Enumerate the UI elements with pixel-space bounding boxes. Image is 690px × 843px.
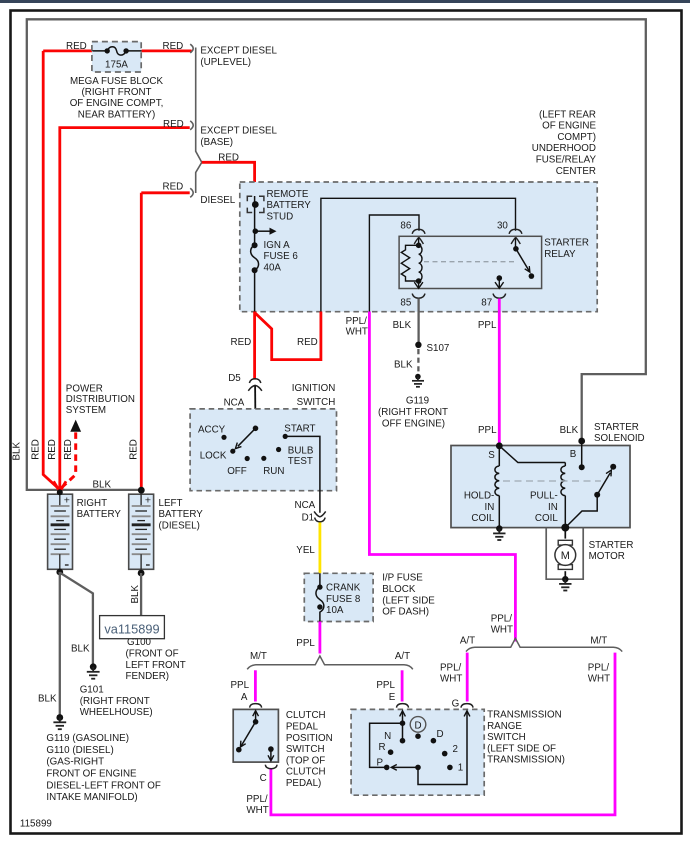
option split brace M/T-A/T (PPL)	[247, 656, 413, 669]
contact D (below indicator)	[415, 733, 421, 739]
svg-text:YEL: YEL	[296, 545, 315, 556]
svg-text:B: B	[570, 449, 577, 460]
svg-text:PPL/: PPL/	[440, 662, 462, 673]
svg-text:RED: RED	[163, 41, 184, 52]
red arrowhead into right battery	[54, 481, 66, 491]
contact BULB TEST	[276, 447, 281, 452]
svg-text:DISTRIBUTION: DISTRIBUTION	[66, 394, 135, 405]
svg-text:RIGHT: RIGHT	[77, 498, 107, 509]
contact OFF	[245, 456, 250, 461]
relay coil with parallel resistor	[401, 237, 423, 288]
internal wire to G output	[418, 711, 467, 784]
svg-text:D: D	[437, 729, 444, 740]
svg-text:SYSTEM: SYSTEM	[66, 405, 106, 416]
node + feed arrow to other circuits	[253, 228, 277, 235]
contact R	[388, 749, 394, 755]
merge brace (three feeds)	[190, 44, 202, 197]
svg-text:SOLENOID: SOLENOID	[594, 433, 645, 444]
svg-text:RED: RED	[63, 439, 74, 460]
mega fuse block box	[92, 42, 141, 72]
internal wire to P contact	[370, 723, 403, 767]
svg-text:CENTER: CENTER	[556, 166, 596, 177]
svg-text:G119 (GASOLINE): G119 (GASOLINE)	[46, 733, 129, 744]
underhood center caption	[532, 109, 597, 177]
pin 87 connector	[493, 294, 506, 299]
svg-text:BLK: BLK	[560, 425, 579, 436]
fuse 175A element	[92, 47, 141, 55]
svg-text:175A: 175A	[105, 60, 128, 71]
svg-text:40A: 40A	[264, 263, 282, 274]
svg-text:1: 1	[458, 763, 463, 774]
svg-text:G110 (DIESEL): G110 (DIESEL)	[46, 745, 113, 756]
wire RED uplevel feed (mega fuse to battery)	[43, 51, 191, 489]
ignition switch rotor arm	[235, 426, 258, 449]
svg-text:FUSE 6: FUSE 6	[264, 251, 299, 262]
svg-text:STUD: STUD	[267, 212, 294, 223]
pin 85 connector	[412, 294, 425, 299]
svg-text:S107: S107	[427, 343, 450, 354]
svg-text:(GAS-RIGHT: (GAS-RIGHT	[46, 757, 104, 768]
svg-text:CRANK: CRANK	[326, 583, 361, 594]
connector G	[461, 704, 473, 708]
svg-text:RED: RED	[231, 337, 252, 348]
svg-text:PPL: PPL	[376, 680, 395, 691]
svg-text:SWITCH: SWITCH	[487, 732, 526, 743]
svg-text:I/P FUSE: I/P FUSE	[382, 573, 423, 584]
svg-text:BULB: BULB	[288, 445, 314, 456]
internal wire to relay pin 30	[321, 198, 516, 311]
svg-text:UNDERHOOD: UNDERHOOD	[532, 143, 596, 154]
svg-text:BLK: BLK	[12, 442, 23, 461]
pin 86 connector	[412, 229, 425, 234]
svg-text:RED: RED	[297, 337, 318, 348]
svg-text:IGNITION: IGNITION	[292, 383, 336, 394]
svg-text:STARTER: STARTER	[544, 238, 589, 249]
starter relay box	[399, 236, 541, 288]
top slate bar	[0, 0, 690, 3]
svg-text:COIL: COIL	[471, 513, 494, 524]
svg-text:COMPT): COMPT)	[557, 132, 596, 143]
svg-text:+: +	[64, 495, 70, 507]
connector C	[265, 765, 277, 769]
svg-text:COIL: COIL	[535, 513, 558, 524]
power distribution dashed red arrow	[62, 431, 76, 488]
svg-text:IN: IN	[484, 502, 494, 513]
svg-text:RED: RED	[31, 439, 42, 460]
terminal S	[496, 442, 503, 449]
svg-text:MOTOR: MOTOR	[589, 551, 625, 562]
contact P with selector arrow	[384, 765, 421, 771]
svg-text:87: 87	[481, 297, 492, 308]
svg-text:POWER: POWER	[66, 383, 103, 394]
svg-text:OFF ENGINE): OFF ENGINE)	[382, 418, 445, 429]
B internal stub	[579, 441, 585, 470]
transmission range switch box	[351, 709, 484, 795]
svg-text:RUN: RUN	[263, 466, 284, 477]
svg-text:STARTER: STARTER	[589, 540, 634, 551]
wire PPL/WHT (crank signal into center)	[369, 312, 515, 642]
relay internal dashed link	[424, 261, 514, 263]
svg-text:(LEFT REAR: (LEFT REAR	[539, 109, 596, 120]
svg-text:2: 2	[453, 744, 458, 755]
svg-text:PPL: PPL	[478, 425, 497, 436]
svg-text:S: S	[488, 450, 495, 461]
svg-text:PEDAL: PEDAL	[286, 722, 319, 733]
svg-text:HOLD-: HOLD-	[464, 491, 494, 502]
svg-text:NCA: NCA	[295, 500, 316, 511]
wire START output	[285, 436, 320, 512]
svg-text:ACCY: ACCY	[198, 425, 226, 436]
svg-text:G: G	[452, 698, 460, 709]
svg-text:TRANSMISSION): TRANSMISSION)	[487, 755, 565, 766]
wire BLK right battery to G101	[60, 572, 93, 664]
svg-text:STARTER: STARTER	[594, 422, 639, 433]
node S107	[415, 342, 421, 348]
contact N	[400, 738, 406, 744]
svg-text:(RIGHT FRONT: (RIGHT FRONT	[80, 696, 150, 707]
trans switch G output arrow	[464, 711, 470, 717]
starter motor	[555, 540, 576, 569]
svg-text:DIESEL: DIESEL	[200, 195, 235, 206]
svg-text:RED: RED	[66, 41, 87, 52]
svg-text:86: 86	[400, 221, 411, 232]
svg-text:OFF: OFF	[227, 466, 247, 477]
connector E	[397, 704, 409, 708]
svg-text:RANGE: RANGE	[487, 721, 522, 732]
svg-text:P: P	[376, 758, 383, 769]
svg-text:BLK: BLK	[394, 359, 413, 370]
svg-text:WHT: WHT	[246, 805, 268, 816]
svg-text:M/T: M/T	[250, 651, 267, 662]
svg-text:PPL/: PPL/	[588, 662, 610, 673]
svg-text:BATTERY: BATTERY	[267, 200, 312, 211]
trans switch E input arrow	[400, 711, 406, 741]
svg-text:EXCEPT DIESEL: EXCEPT DIESEL	[200, 46, 277, 57]
connector A	[250, 704, 262, 708]
svg-text:LEFT: LEFT	[159, 498, 183, 509]
svg-text:(BASE): (BASE)	[200, 137, 233, 148]
svg-text:FUSE/RELAY: FUSE/RELAY	[536, 155, 597, 166]
contact LOCK	[230, 449, 235, 454]
node left battery -	[138, 570, 145, 577]
svg-text:E: E	[389, 692, 396, 703]
hold-in coil ground	[493, 525, 505, 540]
svg-text:C: C	[260, 773, 267, 784]
svg-text:RED: RED	[129, 439, 140, 460]
wire BLK dashed S107 to G119	[417, 349, 419, 373]
svg-text:DIESEL-LEFT FRONT OF: DIESEL-LEFT FRONT OF	[46, 780, 161, 791]
wire RED base feed	[60, 128, 190, 490]
svg-text:PPL/: PPL/	[346, 316, 368, 327]
option split brace A/T-M/T (PPL/WHT return)	[466, 638, 622, 651]
svg-text:RED: RED	[163, 119, 184, 130]
svg-text:(RIGHT FRONT: (RIGHT FRONT	[378, 407, 448, 418]
svg-text:BATTERY: BATTERY	[77, 509, 122, 520]
svg-text:G101: G101	[80, 685, 104, 696]
circled D indicator	[410, 717, 426, 733]
clutch switch input arrow	[253, 711, 259, 725]
contact RUN	[261, 456, 266, 461]
contact ACCY	[221, 435, 226, 440]
wire RED diesel feed	[141, 193, 189, 490]
svg-text:(FRONT OF: (FRONT OF	[126, 649, 179, 660]
svg-text:SWITCH: SWITCH	[286, 744, 325, 755]
contact START	[283, 434, 288, 439]
solenoid internal dashed link	[503, 480, 601, 482]
contact 2	[442, 751, 448, 757]
svg-text:A/T: A/T	[395, 651, 410, 662]
hold-in coil	[495, 446, 499, 528]
left battery (diesel)	[129, 494, 154, 569]
svg-text:CLUTCH: CLUTCH	[286, 710, 326, 721]
connector D5	[248, 379, 262, 391]
I/P fuse block box	[304, 573, 373, 621]
svg-text:INTAKE MANIFOLD): INTAKE MANIFOLD)	[46, 792, 137, 803]
svg-text:BLK: BLK	[71, 644, 90, 655]
svg-text:D1: D1	[302, 513, 315, 524]
wire S to pull-in coil	[499, 446, 565, 463]
right battery	[48, 494, 73, 569]
wire PPL/WHT M/T leg down and around to clutch switch C	[271, 653, 615, 815]
svg-text:PPL: PPL	[478, 320, 497, 331]
clutch pedal position switch box	[233, 709, 278, 762]
svg-text:POSITION: POSITION	[286, 733, 333, 744]
terminal B	[578, 438, 585, 445]
svg-text:PULL-: PULL-	[530, 491, 558, 502]
wire BLK left battery to G100	[140, 573, 142, 616]
contact D	[431, 738, 437, 744]
svg-text:PPL: PPL	[296, 638, 315, 649]
svg-text:SWITCH: SWITCH	[297, 397, 336, 408]
svg-text:D5: D5	[228, 373, 241, 384]
battery positive cable (B+ to starter solenoid B, gray frame-like run)	[27, 19, 646, 490]
svg-text:WHEELHOUSE): WHEELHOUSE)	[80, 707, 153, 718]
svg-text:PPL: PPL	[231, 680, 250, 691]
svg-text:10A: 10A	[326, 605, 344, 616]
svg-text:BATTERY: BATTERY	[159, 509, 204, 520]
svg-text:(RIGHT FRONT: (RIGHT FRONT	[81, 87, 151, 98]
svg-text:START: START	[284, 424, 315, 435]
svg-text:NCA: NCA	[224, 397, 245, 408]
node right battery +	[57, 489, 63, 495]
svg-text:A: A	[241, 692, 248, 703]
wire RED merged output into underhood center	[202, 162, 255, 196]
wire RED ignition feed (fuse output to D5 and relay 30 branch)	[255, 312, 321, 380]
contact 1	[447, 765, 453, 771]
starter motor ground	[559, 576, 571, 591]
wire YEL (D1 to crank fuse)	[318, 522, 321, 573]
svg-text:EXCEPT DIESEL: EXCEPT DIESEL	[200, 126, 277, 137]
underhood fuse/relay center box	[240, 182, 597, 312]
svg-text:FRONT OF ENGINE: FRONT OF ENGINE	[46, 769, 137, 780]
svg-text:(DIESEL): (DIESEL)	[159, 520, 200, 531]
svg-text:D: D	[414, 721, 421, 732]
clutch switch output contact	[268, 746, 274, 761]
solenoid contact linkage	[561, 464, 616, 532]
svg-text:PPL/: PPL/	[491, 613, 513, 624]
svg-text:PEDAL): PEDAL)	[286, 778, 321, 789]
relay switch contact	[513, 237, 534, 279]
svg-text:CLUTCH: CLUTCH	[286, 767, 326, 778]
svg-text:BLOCK: BLOCK	[382, 584, 416, 595]
svg-text:RED: RED	[163, 182, 184, 193]
svg-text:WHT: WHT	[491, 625, 513, 636]
node junction (E path)	[400, 720, 406, 726]
svg-text:(LEFT SIDE OF: (LEFT SIDE OF	[487, 743, 556, 754]
wire PPL (crank fuse output)	[318, 622, 321, 654]
svg-text:LOCK: LOCK	[200, 451, 227, 462]
wire BLK right battery to G119/G110	[59, 572, 61, 715]
svg-text:(LEFT SIDE: (LEFT SIDE	[382, 595, 435, 606]
pin 30 connector	[509, 229, 522, 234]
svg-text:FENDER): FENDER)	[126, 671, 170, 682]
svg-text:RED: RED	[47, 439, 58, 460]
svg-text:TEST: TEST	[288, 456, 313, 467]
svg-text:BLK: BLK	[93, 480, 112, 491]
internal wire to relay pin 86	[369, 215, 419, 312]
wire into ignition switch	[254, 386, 256, 429]
svg-text:RELAY: RELAY	[544, 249, 576, 260]
va115899 tag box	[100, 616, 165, 639]
node left battery +	[138, 487, 145, 494]
pull-in coil	[561, 463, 565, 528]
svg-text:FUSE 8: FUSE 8	[326, 594, 361, 605]
svg-text:IGN A: IGN A	[264, 240, 291, 251]
svg-text:REMOTE: REMOTE	[267, 189, 309, 200]
svg-text:A/T: A/T	[460, 636, 475, 647]
wire BLK relay 85 to S107	[417, 299, 419, 345]
wire PPL relay 87 to solenoid S	[498, 299, 501, 446]
svg-text:WHT: WHT	[588, 674, 610, 685]
svg-text:R: R	[379, 742, 386, 753]
svg-text:OF ENGINE COMPT,: OF ENGINE COMPT,	[70, 98, 164, 109]
wire PPL/WHT to trans range switch G	[466, 653, 469, 702]
wire PPL to trans range switch E	[401, 670, 404, 701]
svg-text:NEAR BATTERY): NEAR BATTERY)	[78, 109, 155, 120]
svg-text:BLK: BLK	[38, 693, 57, 704]
svg-text:BLK: BLK	[130, 585, 141, 604]
clutch switch arm	[236, 722, 256, 753]
svg-text:OF ENGINE: OF ENGINE	[542, 121, 596, 132]
fuse IGN A FUSE 6 40A	[251, 231, 259, 311]
svg-text:(TOP OF: (TOP OF	[286, 755, 325, 766]
svg-text:OF DASH): OF DASH)	[382, 607, 429, 618]
wire PPL to clutch switch A	[254, 670, 257, 701]
connector D1	[314, 511, 326, 522]
svg-text:va115899: va115899	[104, 621, 159, 636]
starter motor bracket wires	[546, 528, 583, 580]
svg-text:BLK: BLK	[393, 320, 412, 331]
svg-text:M: M	[561, 550, 570, 562]
ground G119 (right front off engine)	[412, 374, 424, 387]
svg-text:IN: IN	[548, 502, 558, 513]
svg-text:WHT: WHT	[346, 327, 368, 338]
remote battery stud	[247, 196, 264, 231]
ground G119/G110	[53, 714, 66, 729]
ground G101	[87, 663, 100, 678]
svg-text:WHT: WHT	[440, 674, 462, 685]
relay pin 87 contact	[495, 275, 504, 288]
svg-text:TRANSMISSION: TRANSMISSION	[487, 710, 562, 721]
svg-text:+: +	[145, 495, 151, 507]
svg-text:LEFT FRONT: LEFT FRONT	[126, 660, 186, 671]
svg-text:30: 30	[497, 221, 508, 232]
ignition switch box	[190, 409, 336, 491]
svg-text:115899: 115899	[20, 818, 52, 829]
svg-text:PPL/: PPL/	[246, 794, 268, 805]
starter solenoid box	[451, 446, 630, 528]
svg-text:M/T: M/T	[590, 636, 607, 647]
svg-text:85: 85	[400, 297, 411, 308]
svg-text:(UPLEVEL): (UPLEVEL)	[200, 57, 251, 68]
svg-text:N: N	[384, 731, 391, 742]
svg-text:G119: G119	[406, 396, 429, 407]
svg-text:MEGA FUSE BLOCK: MEGA FUSE BLOCK	[70, 76, 164, 87]
fuse CRANK FUSE 8 10A	[316, 573, 324, 621]
node right battery -	[56, 569, 63, 576]
